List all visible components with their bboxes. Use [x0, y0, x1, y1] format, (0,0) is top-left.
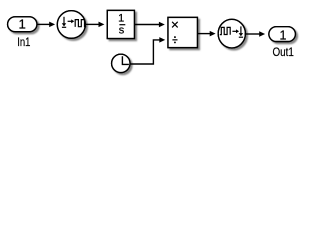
wire integrator to product	[134, 24, 159, 26]
arrowhead into integrator	[99, 22, 105, 28]
arrowhead into holder	[210, 31, 216, 36]
holder icon pulse wave	[220, 27, 230, 34]
product multiply sign	[172, 22, 178, 28]
product divide sign	[172, 39, 177, 41]
arrowhead into product input 2	[159, 37, 165, 43]
sampler icon down-arrow bar	[62, 26, 66, 28]
arrowhead into sampler	[49, 22, 55, 28]
wire In1 to sampler	[37, 23, 50, 25]
inport In1	[8, 17, 37, 32]
svg-text:Out1: Out1	[272, 45, 294, 59]
holder icon down-arrow	[240, 26, 242, 33]
arrowhead into Out1	[259, 31, 265, 37]
wire product to holder	[197, 33, 210, 35]
svg-text:1: 1	[280, 29, 287, 43]
svg-text:s: s	[119, 25, 125, 37]
clock hands	[122, 56, 128, 64]
clock block	[112, 54, 130, 72]
integrator block 1/s	[107, 10, 134, 38]
sampler icon down-arrow	[63, 17, 65, 24]
product (divide) block	[168, 17, 197, 47]
sampler block (circle, sample icon)	[57, 11, 85, 39]
holder block (circle, hold icon)	[218, 19, 245, 48]
holder icon right-arrow	[232, 30, 236, 32]
svg-text:1: 1	[118, 13, 124, 25]
svg-text:In1: In1	[17, 35, 30, 49]
outport Out1	[269, 27, 296, 42]
wire clock to product divide input	[130, 40, 160, 64]
arrowhead into product input 1	[159, 22, 165, 28]
sampler icon pulse wave	[75, 20, 86, 27]
svg-text:1: 1	[19, 16, 26, 31]
integrator fraction bar	[119, 24, 125, 26]
sampler icon right-arrow	[68, 20, 72, 22]
wire holder to Out1	[245, 33, 260, 35]
holder icon down-arrow bar	[239, 36, 243, 38]
wire sampler to integrator	[85, 23, 99, 25]
